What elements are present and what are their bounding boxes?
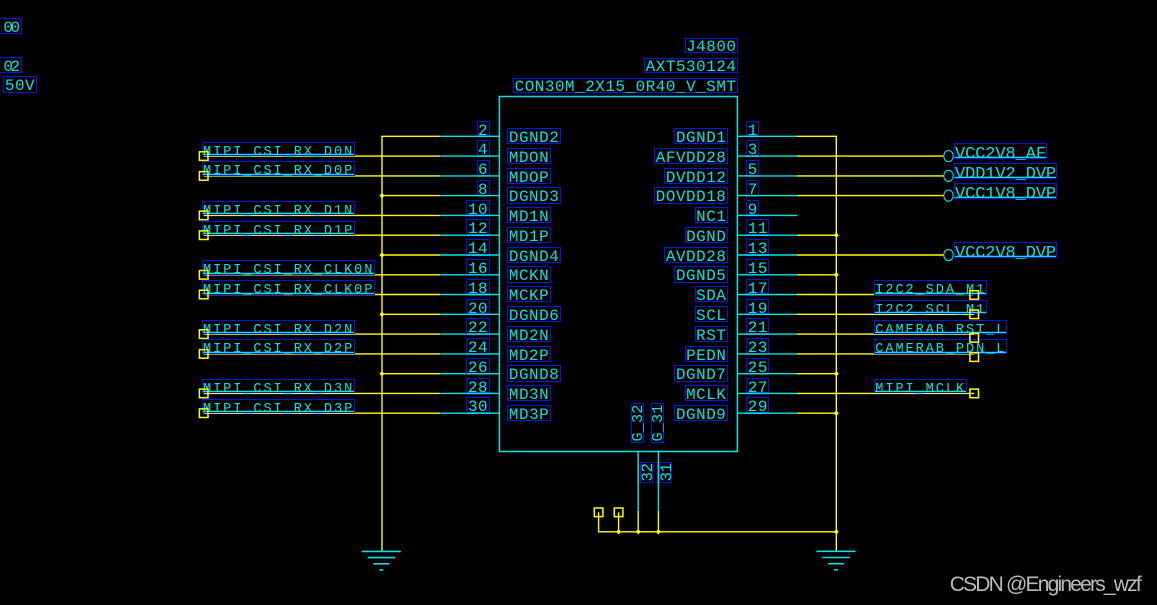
connector J4800 body outline	[499, 97, 737, 452]
pin name DGND7	[674, 365, 727, 381]
wire pin 27 to port MIPI_MCLK	[797, 392, 974, 394]
pin number 25	[746, 358, 769, 374]
pin number 19	[746, 299, 769, 315]
pin number 16	[466, 259, 489, 275]
pin name DGND6	[507, 306, 560, 322]
pin name MD3N	[507, 385, 550, 401]
pin 23 (PEDN) lead	[737, 353, 797, 355]
pin number 28	[466, 378, 489, 394]
pin name DGND1	[674, 128, 727, 144]
pin name MD1P	[507, 227, 550, 243]
port square MIPI_CSI_RX_D1N	[199, 211, 208, 220]
pin number 22	[466, 318, 489, 334]
pin 10 lead over number box	[467, 214, 491, 216]
port square I2C2_SCL_M1	[970, 310, 979, 319]
pin 27 (MCLK) lead	[737, 392, 797, 394]
port square MIPI_CSI_RX_CLK0N	[199, 271, 208, 280]
pin number 14	[466, 239, 489, 255]
pin name AVDD28	[664, 247, 728, 263]
pin 31 (G_31) lead	[657, 452, 659, 512]
net label I2C2_SCL_M1	[874, 300, 987, 315]
wire pin 31 to bottom GND bus	[657, 511, 659, 532]
wire pin 1 to right GND rail	[797, 135, 837, 137]
pin name MCKN	[507, 266, 550, 282]
pin name DGND9	[674, 405, 727, 421]
part number AXT530124	[644, 58, 738, 73]
port square MIPI_CSI_RX_D3N	[199, 389, 208, 398]
pin 4 (MDON) lead	[439, 155, 499, 157]
net label MIPI_CSI_RX_D3N	[202, 379, 355, 394]
pin 8 (DGND3) lead	[439, 195, 499, 197]
designator J4800	[685, 38, 738, 53]
wire pin 3 to power port VCC2V8_AF	[797, 155, 944, 157]
wire pin 17 to port I2C2_SDA_M1	[797, 294, 974, 296]
junction left rail / pin 26	[379, 371, 384, 376]
pin number 1	[746, 121, 759, 137]
pin 11 lead over number box	[745, 234, 769, 236]
pin 20 (DGND6) lead	[439, 313, 499, 315]
pin 5 (DVDD12) lead	[737, 175, 797, 177]
pin number 18	[466, 279, 489, 295]
pin 24 (MD2P) lead	[439, 353, 499, 355]
port square CAMERAB_PDN_L	[970, 353, 979, 362]
pin 18 (MCKP) lead	[439, 294, 499, 296]
power net label VDD1V2_DVP	[954, 163, 1057, 179]
right GND rail (vertical wire)	[835, 136, 837, 532]
pin 1 lead over number box	[745, 135, 758, 137]
pin 31 lead over number box	[657, 462, 659, 484]
pin 14 (DGND4) lead	[439, 254, 499, 256]
port square MIPI_CSI_RX_D0N	[199, 152, 208, 161]
pin number 6	[477, 160, 490, 176]
wire pin 15 to right GND rail	[797, 274, 836, 276]
pin 12 (MD1P) lead	[439, 234, 499, 236]
junction left rail / pin 20	[379, 312, 384, 317]
wire pin 32 to bottom GND bus	[637, 511, 639, 532]
pin 5 lead over number box	[745, 175, 758, 177]
pin 17 lead over number box	[745, 294, 769, 296]
pin number 10	[466, 200, 489, 216]
junction right rail / pin 29	[834, 411, 839, 416]
wire pin 29 to right GND rail	[797, 412, 836, 414]
pin 29 (DGND9) lead	[737, 412, 797, 414]
clipped label 50V	[3, 76, 36, 92]
junction right rail / pin 15	[834, 272, 839, 277]
pin 9 (NC1) lead	[737, 214, 797, 216]
power port circle VCC2V8_AF	[944, 151, 953, 162]
wire pin 5 to power port VDD1V2_DVP	[797, 175, 944, 177]
net label MIPI_CSI_RX_D0P	[202, 161, 355, 176]
pin 3 (AFVDD28) lead	[737, 155, 797, 157]
wire MIPI_CSI_RX_D1N to pin 10	[204, 214, 440, 216]
wire pin 23 to port CAMERAB_PDN_L	[797, 353, 974, 355]
wire pin 25 to right GND rail	[797, 373, 836, 375]
pin name DGND2	[507, 128, 560, 144]
pin name PEDN	[685, 346, 728, 362]
net label MIPI_CSI_RX_D3P	[202, 399, 355, 414]
pin name DGND5	[674, 266, 727, 282]
pin name MD2P	[507, 346, 550, 362]
pin name MD2N	[507, 326, 550, 342]
pin 24 lead over number box	[467, 353, 491, 355]
pin number 26	[466, 358, 489, 374]
pin number 3	[746, 140, 759, 156]
net label MIPI_CSI_RX_D1P	[202, 221, 355, 236]
junction left rail / pin 8	[379, 193, 384, 198]
wire pin 7 to power port VCC1V8_DVP	[797, 195, 944, 197]
pin name NC1	[695, 207, 728, 223]
power port circle VCC1V8_DVP	[944, 190, 953, 201]
net label MIPI_CSI_RX_CLK0P	[202, 280, 375, 295]
pin number 23	[746, 338, 769, 354]
pin 6 (MDOP) lead	[439, 175, 499, 177]
wire port square A to GND bus	[598, 512, 600, 532]
wire pin 26 to left GND rail	[381, 373, 440, 375]
pin name DOVDD18	[654, 187, 728, 203]
wire pin 13 to power port VCC2V8_DVP	[797, 254, 944, 256]
pin name DGND3	[507, 187, 560, 203]
net label MIPI_CSI_RX_CLK0N	[202, 260, 375, 275]
port square MIPI_CSI_RX_CLK0P	[199, 290, 208, 299]
wire MIPI_CSI_RX_D1P to pin 12	[204, 234, 440, 236]
pin 23 lead over number box	[745, 353, 769, 355]
wire pin 8 to left GND rail	[381, 195, 440, 197]
power net label VCC2V8_DVP	[954, 242, 1057, 258]
wire MIPI_CSI_RX_D0N to pin 4	[204, 155, 440, 157]
clipped label 02	[0, 57, 22, 73]
pin number 5	[746, 160, 759, 176]
net label MIPI_CSI_RX_D2N	[202, 320, 355, 335]
pin number 11	[746, 219, 769, 235]
pin 13 lead over number box	[745, 254, 769, 256]
port square MIPI_CSI_RX_D1P	[199, 231, 208, 240]
pin name MCKP	[507, 286, 550, 302]
wire MIPI_CSI_RX_D2N to pin 22	[204, 333, 440, 335]
pin name MCLK	[685, 385, 728, 401]
junction GND bus / square B	[616, 529, 621, 534]
pin number 4	[477, 140, 490, 156]
pin 26 lead over number box	[467, 373, 491, 375]
pin number 7	[746, 180, 759, 196]
pin 7 (DOVDD18) lead	[737, 195, 797, 197]
pin 17 (SDA) lead	[737, 294, 797, 296]
port square CAMERAB_RST_L	[970, 334, 979, 343]
junction GND bus / pin 31	[656, 529, 661, 534]
clipped label 00	[0, 18, 22, 34]
pin 28 (MD3N) lead	[439, 392, 499, 394]
pin name DGND4	[507, 247, 560, 263]
pin name MD1N	[507, 207, 550, 223]
wire MIPI_CSI_RX_D3P to pin 30	[204, 412, 440, 414]
pin number 20	[466, 299, 489, 315]
wire pin 11 to right GND rail	[797, 234, 836, 236]
wire MIPI_CSI_RX_D3N to pin 28	[204, 392, 440, 394]
pin number 24	[466, 338, 489, 354]
pin 15 (DGND5) lead	[737, 274, 797, 276]
net label I2C2_SDA_M1	[874, 280, 987, 295]
watermark CSDN @Engineers_wzf	[950, 573, 1140, 597]
pin 1 (DGND1) lead	[737, 135, 797, 137]
net label CAMERAB_PDN_L	[874, 339, 1007, 354]
pin 15 lead over number box	[745, 274, 769, 276]
pin 16 lead over number box	[467, 274, 491, 276]
pin 13 (AVDD28) lead	[737, 254, 797, 256]
port square A (bottom)	[594, 508, 603, 517]
pin name MD3P	[507, 405, 550, 421]
wire MIPI_CSI_RX_D2P to pin 24	[204, 353, 440, 355]
pin 14 lead over number box	[467, 254, 491, 256]
pin 29 lead over number box	[745, 412, 769, 414]
pin 2 lead over number box	[477, 135, 490, 137]
pin 25 (DGND7) lead	[737, 373, 797, 375]
pin 20 lead over number box	[467, 313, 491, 315]
pin 19 (SCL) lead	[737, 313, 797, 315]
pin 6 lead over number box	[477, 175, 490, 177]
wire MIPI_CSI_RX_CLK0N to pin 16	[204, 274, 440, 276]
pin 25 lead over number box	[745, 373, 769, 375]
wire pin 2 to left GND rail	[381, 135, 440, 137]
wire MIPI_CSI_RX_D0P to pin 6	[204, 175, 440, 177]
power port circle VDD1V2_DVP	[944, 170, 953, 181]
pin 26 (DGND8) lead	[439, 373, 499, 375]
pin 10 (MD1N) lead	[439, 214, 499, 216]
net label MIPI_CSI_RX_D0N	[202, 142, 355, 157]
pin name RST	[695, 326, 728, 342]
pin 27 lead over number box	[745, 392, 769, 394]
pin 30 (MD3P) lead	[439, 412, 499, 414]
pin 11 (DGND) lead	[737, 234, 797, 236]
pin name G_32	[631, 402, 644, 442]
pin number 17	[746, 279, 769, 295]
pin 9 lead over number box	[745, 214, 758, 216]
wire MIPI_CSI_RX_CLK0P to pin 18	[204, 294, 440, 296]
pin number 27	[746, 378, 769, 394]
pin number 2	[477, 121, 490, 137]
bottom GND bus wire	[598, 531, 837, 533]
power net label VCC2V8_AF	[954, 143, 1047, 159]
pin 18 lead over number box	[467, 294, 491, 296]
pin number 8	[477, 180, 490, 196]
wire pin 14 to left GND rail	[381, 254, 440, 256]
junction left rail / pin 14	[379, 252, 384, 257]
pin 22 lead over number box	[467, 333, 491, 335]
port square MIPI_CSI_RX_D2N	[199, 330, 208, 339]
junction right rail / pin 25	[834, 371, 839, 376]
pin number 29	[746, 397, 769, 413]
wire port square B to GND bus	[618, 512, 620, 532]
pin number 31	[659, 462, 672, 483]
pin 22 (MD2N) lead	[439, 333, 499, 335]
pin 28 lead over number box	[467, 392, 491, 394]
pin name G_31	[651, 402, 664, 442]
junction GND bus / right rail corner	[834, 529, 839, 534]
left GND rail (vertical wire)	[381, 136, 383, 551]
ground symbol (right)	[817, 551, 856, 570]
port square MIPI_CSI_RX_D0P	[199, 172, 208, 181]
junction GND bus / pin 32	[636, 529, 641, 534]
port square MIPI_CSI_RX_D3P	[199, 409, 208, 418]
net label MIPI_MCLK	[874, 379, 967, 394]
pin name MDON	[507, 148, 550, 164]
port square I2C2_SDA_M1	[970, 291, 979, 300]
net label MIPI_CSI_RX_D2P	[202, 339, 355, 354]
pin number 32	[640, 462, 653, 483]
pin 32 (G_32) lead	[637, 452, 639, 512]
net label MIPI_CSI_RX_D1N	[202, 201, 355, 216]
footprint CON30M_2X15_0R40_V_SMT	[513, 78, 738, 93]
right ground stem	[835, 532, 837, 551]
pin name AFVDD28	[654, 148, 728, 164]
pin name DVDD12	[664, 168, 728, 184]
pin number 21	[746, 318, 769, 334]
wire pin 21 to port CAMERAB_RST_L	[797, 333, 974, 335]
pin 19 lead over number box	[745, 313, 769, 315]
pin 21 (RST) lead	[737, 333, 797, 335]
pin name SDA	[695, 286, 728, 302]
pin 2 (DGND2) lead	[439, 135, 499, 137]
pin 3 lead over number box	[745, 155, 758, 157]
pin name DGND	[685, 227, 728, 243]
pin 12 lead over number box	[467, 234, 491, 236]
net label CAMERAB_RST_L	[874, 320, 1007, 335]
port square MIPI_MCLK	[970, 389, 979, 398]
pin name SCL	[695, 306, 728, 322]
ground symbol (left)	[362, 551, 401, 570]
pin number 30	[466, 397, 489, 413]
junction right rail / pin 11	[834, 233, 839, 238]
pin 21 lead over number box	[745, 333, 769, 335]
pin 30 lead over number box	[467, 412, 491, 414]
wire pin 20 to left GND rail	[381, 313, 440, 315]
pin number 9	[746, 200, 759, 216]
pin number 13	[746, 239, 769, 255]
pin 4 lead over number box	[477, 155, 490, 157]
pin 16 (MCKN) lead	[439, 274, 499, 276]
pin 7 lead over number box	[745, 195, 758, 197]
port square MIPI_CSI_RX_D2P	[199, 350, 208, 359]
port square B (bottom)	[614, 508, 623, 517]
wire pin 19 to port I2C2_SCL_M1	[797, 313, 974, 315]
pin 32 lead over number box	[637, 462, 639, 484]
pin name DGND8	[507, 365, 560, 381]
pin name MDOP	[507, 168, 550, 184]
pin 8 lead over number box	[477, 195, 490, 197]
power net label VCC1V8_DVP	[954, 183, 1057, 199]
pin number 15	[746, 259, 769, 275]
pin number 12	[466, 219, 489, 235]
power port circle VCC2V8_DVP	[944, 249, 953, 260]
